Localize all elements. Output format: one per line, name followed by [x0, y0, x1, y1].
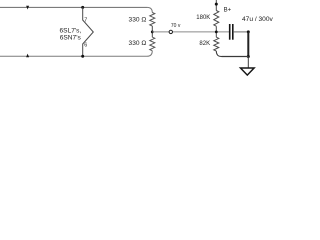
wire corner R2 to bottom bus [147, 51, 152, 57]
wire thick right drop [247, 32, 249, 57]
resistor 330 ohm lower [150, 37, 155, 51]
svg-text:6: 6 [84, 43, 87, 49]
junction dot ground node [247, 55, 250, 58]
svg-text:82K: 82K [199, 41, 210, 47]
wire top heater bus [0, 6, 147, 8]
svg-text:6SN7's: 6SN7's [60, 34, 82, 41]
wire between 180K and 82K [215, 26, 217, 37]
svg-text:B+: B+ [224, 8, 232, 14]
node circle 70V test point [169, 30, 172, 33]
wire node row left segment [152, 31, 229, 33]
resistor 82K [214, 37, 219, 51]
wire corner 82K to ground row [216, 51, 221, 57]
svg-text:330 Ω: 330 Ω [129, 40, 147, 47]
wire corner top to R1 [147, 7, 152, 12]
capacitor 47u left plate [229, 24, 231, 40]
junction dot pin 6 node [81, 55, 84, 58]
wire ground row [222, 56, 249, 58]
ground [241, 68, 255, 75]
junction dot pin 7 node [81, 6, 84, 9]
svg-text:70 v: 70 v [171, 23, 181, 29]
wire bottom heater bus [0, 55, 147, 57]
B+ terminal dot [215, 3, 218, 6]
junction arrow mark on bottom heater wire [26, 54, 29, 58]
wire ground stem [247, 57, 249, 68]
svg-text:330 Ω: 330 Ω [129, 16, 147, 23]
resistor 180K [214, 11, 219, 27]
svg-text:180K: 180K [196, 15, 210, 21]
wire between 330 ohm resistors [151, 26, 153, 37]
junction arrow mark on top heater wire [26, 6, 29, 10]
resistor 330 ohm upper [150, 13, 155, 27]
B+ supply lead wire [215, 0, 217, 11]
junction dot capacitor right top [247, 30, 250, 33]
svg-text:47u / 300v: 47u / 300v [242, 16, 273, 23]
junction dot divider node [215, 31, 218, 34]
capacitor 47u right plate [232, 24, 234, 40]
tube heater brace 6SL7/6SN7 [83, 7, 94, 56]
junction dot 330 ohm midpoint node [151, 31, 154, 34]
svg-text:7: 7 [84, 18, 87, 24]
wire capacitor to corner node [233, 31, 247, 33]
